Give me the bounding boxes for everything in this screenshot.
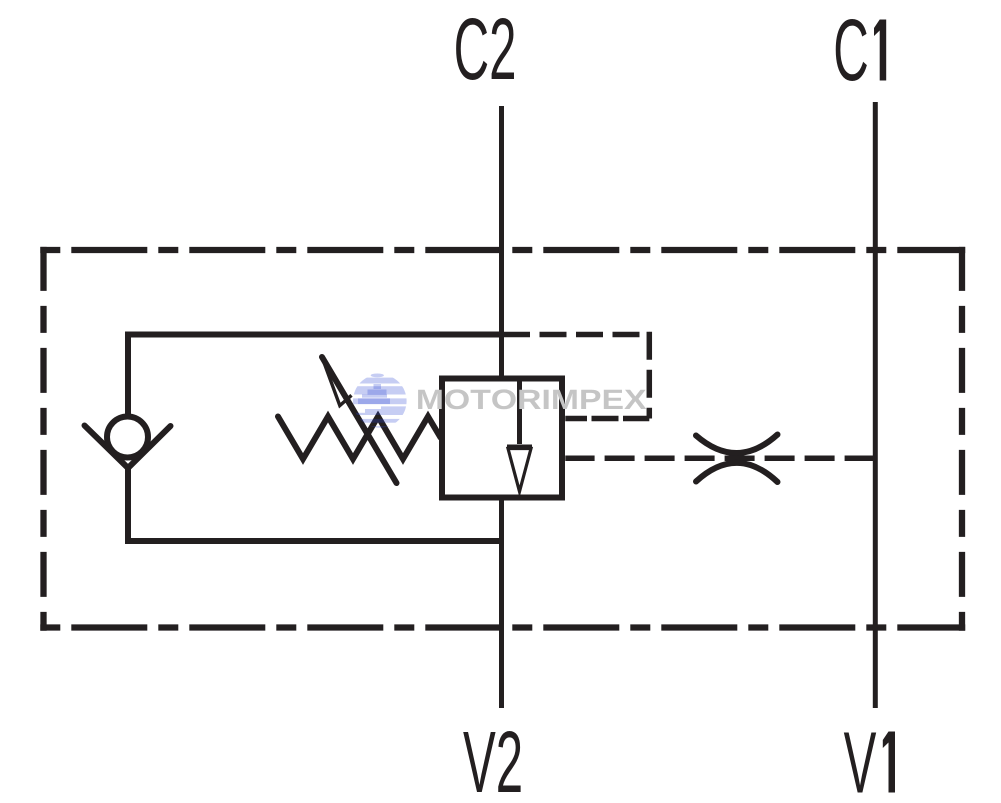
relief valve internal flow shaft bbox=[517, 378, 522, 444]
pilot line dashed: run into valve right side bbox=[565, 416, 649, 422]
watermark globe logo bbox=[350, 374, 410, 430]
valve body boundary dash-dot border right edge bbox=[959, 247, 965, 631]
port label C1 digit 1 bbox=[874, 20, 886, 81]
orifice restrictor lower arc bbox=[696, 463, 778, 482]
watermark text MOTORIMPEX bbox=[418, 389, 646, 409]
wire: C1-V1 through line bbox=[873, 102, 878, 708]
adjustment arrow shaft bbox=[322, 357, 397, 483]
orifice restrictor upper arc bbox=[696, 435, 778, 454]
svg-text:V: V bbox=[844, 714, 877, 803]
svg-text:V2: V2 bbox=[463, 713, 523, 803]
valve body boundary dash-dot border top edge bbox=[40, 247, 965, 253]
svg-text:C2: C2 bbox=[454, 0, 517, 97]
pilot line dashed: right vertical drop bbox=[647, 332, 653, 419]
wire: C2 port line (top) bbox=[499, 106, 504, 378]
svg-text:C: C bbox=[833, 1, 868, 98]
wire: V2 port line (bottom) bbox=[499, 498, 504, 708]
pilot sensing line dashed to C1 bbox=[565, 456, 875, 462]
globe top cap ellipse bbox=[371, 374, 384, 378]
relief valve internal arrow head bar bbox=[507, 445, 532, 450]
valve body boundary dash-dot border left edge bbox=[40, 247, 46, 631]
spring of relief valve bbox=[278, 417, 441, 460]
valve body boundary dash-dot border bottom edge bbox=[40, 624, 965, 630]
relief valve internal arrow head triangle bbox=[508, 449, 531, 492]
relief valve body box bbox=[442, 379, 562, 498]
check valve V1a seat bbox=[85, 426, 171, 469]
wire: check-valve loop upper run bbox=[128, 335, 502, 417]
wire: check-valve loop lower run bbox=[128, 466, 502, 541]
check valve V1a ball bbox=[107, 417, 148, 458]
pilot line dashed: top run from C2 junction bbox=[503, 332, 649, 338]
port label V1 digit 1 bbox=[883, 732, 895, 793]
adjustment arrow open head bbox=[322, 357, 352, 406]
